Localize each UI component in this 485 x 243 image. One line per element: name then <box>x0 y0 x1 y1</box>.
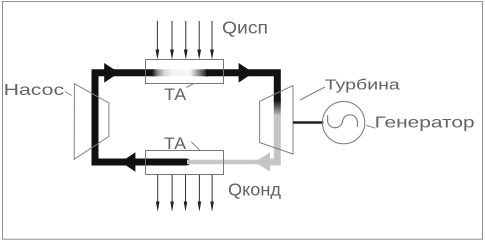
svg-text:Qисп: Qисп <box>222 17 268 37</box>
svg-text:Генератор: Генератор <box>375 115 475 132</box>
svg-text:Турбина: Турбина <box>325 77 401 94</box>
svg-text:ТА: ТА <box>164 85 187 104</box>
pump (trapezoid) <box>74 84 109 160</box>
wire: black pipe pump loop (top-left elbow, left vertical, bottom-left elbow) <box>95 73 187 162</box>
heat output arrows Qконд <box>158 175 212 204</box>
arrow: black left-pointing toward pump <box>121 152 135 172</box>
wire: gray pipe from turbine to bottom elbow <box>267 114 277 162</box>
generator sine symbol <box>328 115 358 128</box>
turbine (trapezoid) <box>260 86 293 155</box>
svg-text:ТА: ТА <box>164 134 187 153</box>
arrow: gray left-pointing before condenser <box>255 152 271 171</box>
shaft turbine-generator <box>293 121 323 123</box>
arrow: black right-pointing after evaporator <box>239 63 254 83</box>
arrow: black right-pointing after pump elbow <box>104 63 119 83</box>
leader line Турбина <box>300 87 325 100</box>
leader line Генератор <box>367 125 376 128</box>
svg-text:Qконд: Qконд <box>228 179 281 199</box>
heat exchanger TA top (evaporator) <box>146 60 224 84</box>
wire: rounded black end in condenser <box>184 159 191 166</box>
heat input arrows Qисп <box>157 21 212 52</box>
svg-text:Насос: Насос <box>4 82 65 99</box>
wire: black-to-gray gradient in turbine <box>274 100 281 116</box>
leader line TA bottom <box>191 142 200 151</box>
leader line Насос <box>65 92 72 96</box>
heat exchanger TA bottom (condenser) <box>146 151 224 175</box>
leader line TA top <box>186 84 193 88</box>
wire: black pipe top-right to turbine <box>206 73 277 102</box>
generator circle <box>322 101 364 143</box>
wire: gradient section through evaporator TA <box>152 69 208 76</box>
wire: gray pipe through condenser TA <box>187 160 273 165</box>
